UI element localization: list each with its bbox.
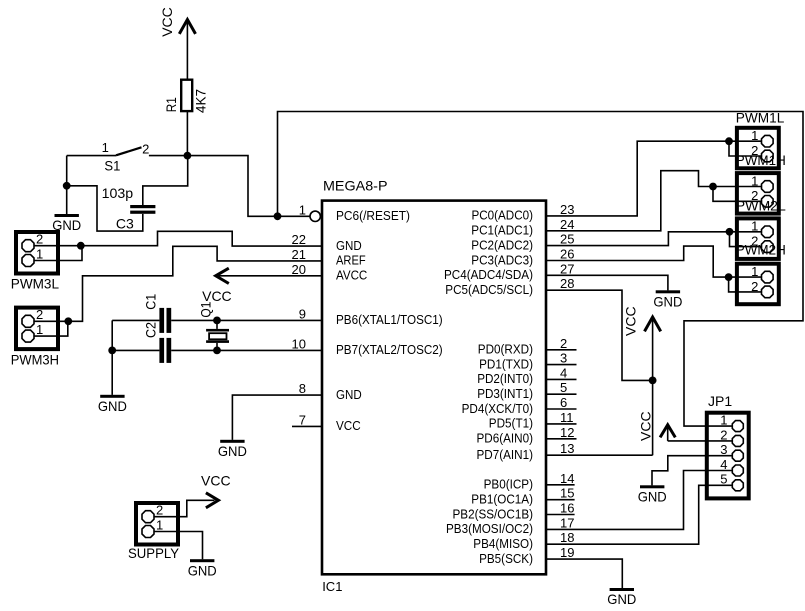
capacitor C2 — [159, 338, 171, 363]
wire XTAL2 left segment — [112, 349, 159, 351]
node crystal bottom junction — [213, 347, 221, 355]
label IC1 — [322, 579, 342, 594]
svg-text:R1: R1 — [163, 97, 179, 112]
svg-text:PC5(ADC5/SCL): PC5(ADC5/SCL) — [445, 283, 533, 297]
svg-text:PD0(RXD): PD0(RXD) — [478, 343, 533, 357]
ground GND (pin 8) — [218, 440, 247, 459]
wire PB5 (pin 19) to GND — [546, 559, 622, 588]
node VCC/PC5 junction — [649, 377, 657, 385]
svg-text:4: 4 — [720, 457, 727, 472]
switch S1 — [67, 147, 188, 155]
svg-text:4: 4 — [560, 365, 567, 380]
svg-text:2: 2 — [36, 307, 43, 322]
svg-text:23: 23 — [560, 202, 574, 217]
power symbol VCC (AVCC arrow, points left) — [202, 268, 232, 304]
value 103p — [102, 185, 134, 201]
svg-text:GND: GND — [218, 443, 247, 459]
wire PB4 (pin 18) to JP1 pin 5 — [546, 485, 732, 544]
wire PC5 (pin 28) to VCC node — [546, 290, 653, 380]
wire PWM3L pin2 to GND jog — [35, 231, 323, 246]
wire PWM3H to AREF (pin 21) — [35, 246, 323, 321]
svg-text:4K7: 4K7 — [193, 89, 209, 113]
node PWM2L pins tie — [726, 228, 734, 236]
svg-text:PB1(OC1A): PB1(OC1A) — [471, 493, 533, 507]
ground GND (pin 27) — [653, 290, 682, 309]
svg-text:MEGA8-P: MEGA8-P — [323, 178, 388, 194]
label R1 — [163, 97, 179, 112]
ground GND (pin 19) — [607, 588, 636, 607]
label S1 pin 2 — [142, 142, 149, 157]
capacitor C3 — [130, 205, 155, 214]
svg-text:25: 25 — [560, 232, 574, 247]
label S1 pin 1 — [102, 140, 109, 155]
svg-text:SUPPLY: SUPPLY — [128, 545, 180, 561]
svg-text:AVCC: AVCC — [336, 269, 367, 283]
wire XTAL1 right segment — [171, 319, 322, 321]
svg-text:PWM1L: PWM1L — [736, 109, 785, 125]
svg-text:PB4(MISO): PB4(MISO) — [473, 537, 533, 551]
wire JP1 pin 3 to GND — [652, 456, 732, 486]
wire stubs pins 2-6,11,12,14,15,16 — [546, 350, 577, 515]
svg-text:VCC: VCC — [159, 7, 175, 37]
IC right pin numbers and names — [444, 202, 574, 566]
connector JP1 — [707, 413, 749, 499]
svg-text:S1: S1 — [104, 157, 120, 173]
svg-text:1: 1 — [36, 322, 43, 337]
connector PWM2L — [736, 197, 786, 259]
wire reset to JP1 pin 1 (long route via top right) — [278, 112, 804, 427]
svg-text:2: 2 — [36, 232, 43, 247]
svg-text:9: 9 — [299, 306, 306, 321]
svg-text:PWM2H: PWM2H — [736, 242, 786, 258]
wire C3 top plate to reset node — [143, 156, 188, 205]
wire PC4 (pin 27) to GND — [546, 275, 668, 290]
wire R1 bottom to reset node — [186, 111, 188, 156]
svg-text:19: 19 — [560, 545, 574, 560]
node PWM2H pins tie — [725, 273, 733, 281]
svg-text:C3: C3 — [116, 215, 134, 231]
node pin1/JP1 reset junction — [274, 212, 282, 220]
svg-text:C1: C1 — [143, 294, 159, 310]
node PWM3H pins tie — [64, 317, 72, 325]
svg-text:26: 26 — [560, 247, 574, 262]
svg-text:6: 6 — [560, 395, 567, 410]
svg-text:PWM2L: PWM2L — [736, 197, 786, 213]
svg-text:PWM3H: PWM3H — [11, 351, 59, 367]
IC IC1 MEGA8-P body — [322, 201, 546, 575]
svg-text:PC0(ADC0): PC0(ADC0) — [472, 209, 534, 223]
resistor R1 — [181, 80, 192, 111]
wire AVCC to IC pin 20 — [216, 275, 322, 277]
svg-text:PC6(/RESET): PC6(/RESET) — [336, 209, 410, 223]
svg-text:7: 7 — [299, 412, 306, 427]
wire stub pin 7 (VCC) — [292, 425, 322, 427]
ground GND (below S1) — [52, 214, 81, 233]
label C3 — [116, 215, 134, 231]
svg-text:3: 3 — [560, 351, 567, 366]
node reset junction (R1/S1/C3) — [184, 152, 192, 160]
label C2 — [143, 322, 159, 338]
svg-text:PC4(ADC4/SDA): PC4(ADC4/SDA) — [444, 268, 533, 282]
svg-text:AREF: AREF — [336, 254, 366, 268]
wire VCC to PD7 (pin 13) — [546, 454, 653, 456]
svg-text:PD3(INT1): PD3(INT1) — [477, 387, 533, 401]
wire SUPPLY pin2 to VCC — [155, 500, 215, 516]
svg-text:20: 20 — [292, 262, 306, 277]
svg-text:PC1(ADC1): PC1(ADC1) — [471, 224, 533, 238]
svg-text:5: 5 — [720, 472, 727, 487]
svg-text:18: 18 — [560, 530, 574, 545]
svg-text:3: 3 — [720, 442, 727, 457]
svg-text:JP1: JP1 — [708, 393, 732, 409]
svg-text:2: 2 — [156, 503, 163, 518]
power symbol VCC (right-pointing, at SUPPLY) — [201, 472, 231, 508]
node PWM1H pins tie — [709, 183, 717, 191]
svg-text:GND: GND — [188, 562, 217, 578]
node C1/C2 ground tie — [108, 347, 116, 355]
svg-text:GND: GND — [653, 294, 682, 310]
label MEGA8-P — [323, 178, 388, 194]
svg-text:2: 2 — [560, 336, 567, 351]
svg-text:C2: C2 — [143, 322, 159, 338]
svg-text:1: 1 — [156, 517, 163, 532]
node PWM3L pins tie — [77, 242, 85, 250]
wire C1/C2 to GND — [111, 320, 113, 395]
wire PC1 (pin 24) to PWM1H — [546, 171, 761, 231]
svg-text:12: 12 — [560, 425, 574, 440]
svg-text:VCC: VCC — [638, 411, 654, 441]
IC left pin numbers and names — [292, 202, 443, 433]
connector SUPPLY — [128, 503, 180, 562]
svg-text:13: 13 — [560, 441, 574, 456]
svg-text:PD4(XCK/T0): PD4(XCK/T0) — [462, 402, 533, 416]
label JP1 — [708, 393, 732, 409]
svg-text:2: 2 — [720, 427, 727, 442]
svg-text:PD5(T1): PD5(T1) — [489, 417, 533, 431]
svg-text:PD1(TXD): PD1(TXD) — [479, 357, 533, 371]
svg-text:14: 14 — [560, 471, 574, 486]
node crystal top junction — [213, 317, 221, 325]
svg-text:GND: GND — [98, 398, 127, 414]
svg-text:PB3(MOSI/OC2): PB3(MOSI/OC2) — [446, 522, 533, 536]
svg-text:VCC: VCC — [336, 419, 361, 433]
node PWM1L pins tie — [725, 137, 733, 145]
svg-text:GND: GND — [336, 388, 362, 402]
svg-text:PB6(XTAL1/TOSC1): PB6(XTAL1/TOSC1) — [336, 313, 443, 327]
wire PC2 (pin 25) to PWM2L — [546, 232, 761, 246]
wire VCC arrow to JP1 pin 2 — [668, 440, 732, 442]
wire C3 bottom plate to GND node — [67, 186, 143, 231]
svg-text:1: 1 — [36, 246, 43, 261]
connector PWM1H — [736, 152, 786, 213]
connector PWM3H — [11, 307, 59, 367]
capacitor C1 — [159, 308, 171, 333]
wire XTAL1 left segment — [112, 319, 159, 321]
svg-text:PD6(AIN0): PD6(AIN0) — [477, 432, 534, 446]
svg-text:22: 22 — [292, 232, 306, 247]
svg-text:1: 1 — [102, 140, 109, 155]
svg-text:11: 11 — [560, 410, 574, 425]
svg-text:PD7(AIN1): PD7(AIN1) — [477, 448, 534, 462]
svg-text:8: 8 — [299, 381, 306, 396]
svg-text:Q1: Q1 — [198, 301, 214, 317]
svg-text:27: 27 — [560, 261, 574, 276]
svg-text:PB5(SCK): PB5(SCK) — [479, 552, 533, 566]
svg-text:GND: GND — [336, 239, 362, 253]
svg-text:PC2(ADC2): PC2(ADC2) — [471, 238, 533, 252]
connector PWM2H — [736, 242, 786, 305]
wire PB3 (pin 17) to JP1 pin 4 — [546, 471, 732, 530]
svg-text:28: 28 — [560, 276, 574, 291]
svg-text:15: 15 — [560, 486, 574, 501]
svg-text:GND: GND — [638, 489, 667, 505]
svg-text:PWM1H: PWM1H — [736, 152, 786, 168]
wire PC3 (pin 26) to PWM2H — [546, 246, 761, 277]
crystal Q1 — [206, 320, 229, 350]
power symbol VCC (at JP1 pin 2) — [638, 411, 676, 441]
connector PWM3L — [11, 232, 59, 292]
svg-text:PC3(ADC3): PC3(ADC3) — [471, 253, 533, 267]
connector PWM1L — [736, 109, 785, 168]
svg-text:103p: 103p — [102, 185, 134, 201]
svg-text:GND: GND — [607, 591, 636, 607]
wire PC0 (pin 23) to PWM1L — [546, 141, 761, 216]
ground GND (below SUPPLY) — [188, 559, 217, 578]
svg-text:PB7(XTAL2/TOSC2): PB7(XTAL2/TOSC2) — [336, 343, 443, 357]
label C1 — [143, 294, 159, 310]
ground GND (below C1/C2) — [98, 395, 127, 414]
wire PWM2L pin2 tie — [730, 232, 762, 247]
wire PWM3H pin1 tie — [35, 321, 68, 336]
value 4K7 — [193, 89, 209, 113]
pin 1 inverting circle (PC6/RESET) — [310, 211, 320, 221]
svg-text:24: 24 — [560, 217, 574, 232]
wire GND pin 8 to ground — [232, 395, 322, 440]
svg-text:17: 17 — [560, 515, 574, 530]
power symbol VCC (center right) — [623, 306, 661, 455]
ground GND (JP1 pin 3) — [638, 485, 667, 504]
svg-text:21: 21 — [292, 247, 306, 262]
label Q1 — [198, 301, 214, 317]
svg-text:2: 2 — [142, 142, 149, 157]
svg-text:PWM3L: PWM3L — [11, 276, 59, 292]
wire PWM1L pin2 tie — [729, 141, 761, 156]
svg-text:PD2(INT0): PD2(INT0) — [477, 372, 533, 386]
wire S1 pin1 down to GND — [66, 156, 68, 215]
wire PWM1H pin2 tie — [713, 187, 761, 202]
wire reset node to IC pin 1 — [187, 156, 310, 217]
svg-text:PB0(ICP): PB0(ICP) — [484, 478, 533, 492]
wire PWM2H pin2 tie — [729, 277, 761, 292]
svg-text:5: 5 — [560, 380, 567, 395]
wire PWM3L pin1 tie — [35, 246, 83, 261]
svg-text:IC1: IC1 — [322, 579, 342, 594]
svg-text:VCC: VCC — [201, 472, 231, 488]
svg-text:10: 10 — [292, 336, 306, 351]
power symbol VCC (top, above R1) — [159, 7, 196, 79]
svg-text:PB2(SS/OC1B): PB2(SS/OC1B) — [453, 507, 534, 521]
svg-text:16: 16 — [560, 501, 574, 516]
svg-text:1: 1 — [720, 413, 727, 428]
wire SUPPLY pin1 to GND — [155, 532, 203, 560]
wire XTAL2 right segment — [171, 349, 322, 351]
node S1/C3/GND junction — [63, 182, 71, 190]
label S1 — [104, 157, 120, 173]
svg-text:VCC: VCC — [623, 306, 639, 336]
svg-text:1: 1 — [299, 202, 306, 217]
